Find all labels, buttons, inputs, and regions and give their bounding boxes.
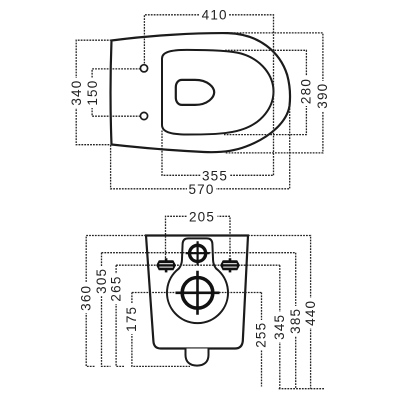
svg-text:280: 280: [299, 78, 314, 104]
svg-text:205: 205: [189, 209, 215, 224]
floor reference line right: [279, 388, 325, 390]
dim 390 bracket: [225, 33, 323, 153]
svg-text:340: 340: [69, 80, 84, 106]
dim 345 label: [272, 312, 287, 342]
dim 360 bracket: [86, 236, 146, 367]
svg-text:345: 345: [272, 314, 287, 340]
dim 175 vertical + outlet bottom reference line: [132, 293, 190, 367]
svg-text:175: 175: [124, 306, 139, 332]
dim 340 bracket: [76, 40, 111, 145]
svg-text:410: 410: [202, 8, 228, 23]
dim 440 label: [303, 298, 318, 328]
dim 205 bracket: [166, 216, 231, 258]
dim 340 label: [69, 78, 84, 108]
dim 305 vertical: [102, 253, 111, 367]
svg-text:390: 390: [315, 83, 330, 109]
extension line through bolt centers: [116, 264, 280, 266]
dim 410 label: [200, 8, 229, 23]
drain circle with inlet tab (union outline): [167, 238, 228, 323]
dim 345 vertical: [279, 265, 281, 389]
svg-text:150: 150: [85, 80, 100, 106]
hinge hole bottom: [140, 112, 147, 119]
dim 255 vertical: [261, 293, 263, 387]
dim 355 bracket: [162, 131, 273, 176]
toilet lid outer outline: [111, 33, 290, 152]
fixing bolt left: [156, 258, 176, 272]
dim 390 label: [315, 81, 330, 111]
dim 265 vertical: [116, 265, 125, 366]
seat ring outline: [162, 50, 274, 135]
hinge hole top: [140, 65, 147, 72]
bottom view body outline: [146, 236, 248, 349]
extension line through drain center: [132, 292, 262, 294]
svg-text:255: 255: [254, 322, 269, 348]
water area rounded rect: [176, 80, 214, 105]
svg-text:360: 360: [79, 285, 94, 311]
dim 385 label: [288, 306, 303, 336]
inlet cross: [186, 241, 210, 265]
dim 255 label: [254, 320, 269, 350]
dim 265 label: [108, 274, 123, 304]
dim 570 label: [187, 182, 216, 197]
dim 205 label: [188, 209, 218, 224]
dim 410 bracket: [144, 15, 273, 176]
fixing bolt right: [220, 258, 240, 272]
svg-text:265: 265: [108, 275, 123, 301]
dim 570 bracket: [111, 107, 290, 189]
dim 150 label: [85, 78, 100, 108]
dim 355 label: [201, 168, 230, 183]
dim 150 bracket: [92, 69, 140, 116]
svg-text:570: 570: [188, 182, 214, 197]
dim 175 label: [124, 304, 139, 334]
dim 440 bracket: [248, 236, 311, 389]
dim 280 label: [299, 76, 314, 106]
outlet pipe: [186, 349, 209, 366]
drain inner circle: [182, 278, 213, 309]
svg-text:385: 385: [288, 308, 303, 334]
dim 360 label: [79, 283, 94, 313]
dim 385 vertical: [295, 253, 297, 389]
svg-text:440: 440: [303, 300, 318, 326]
svg-text:305: 305: [94, 268, 109, 294]
extension line through inlet center: [102, 252, 296, 254]
dim 280 bracket: [224, 50, 306, 134]
dim 305 label: [94, 266, 109, 296]
inlet circle: [190, 245, 206, 261]
drain cross: [176, 271, 220, 315]
